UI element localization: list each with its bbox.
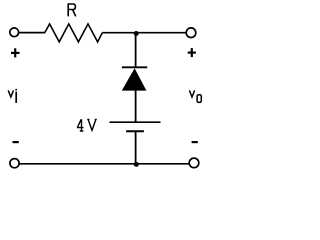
label 4 V bbox=[77, 119, 97, 131]
battery 4V negative plate bbox=[126, 130, 144, 132]
wire input lead bbox=[19, 32, 45, 34]
node junction bottom bbox=[134, 162, 139, 167]
minus sign right bbox=[192, 141, 198, 143]
terminal TR bbox=[186, 28, 196, 38]
wire diode top lead bbox=[135, 33, 137, 68]
diode D1 bbox=[122, 68, 147, 90]
label vo bbox=[189, 90, 201, 102]
resistor R bbox=[45, 24, 103, 42]
label R bbox=[68, 4, 76, 16]
terminal BL bbox=[10, 159, 19, 168]
wire bottom rail bbox=[20, 163, 189, 165]
label vi bbox=[8, 90, 16, 103]
wire top rail bbox=[102, 32, 186, 34]
diode D1 cathode bar bbox=[122, 66, 147, 68]
minus sign left bbox=[13, 141, 19, 143]
terminal BR bbox=[189, 158, 199, 168]
terminal TL bbox=[10, 28, 19, 37]
wire diode to battery bbox=[135, 90, 137, 122]
plus sign right bbox=[188, 48, 196, 57]
plus sign left bbox=[11, 48, 20, 57]
battery 4V positive plate bbox=[110, 121, 161, 123]
node junction top bbox=[134, 31, 139, 36]
wire battery to bottom rail bbox=[135, 132, 137, 165]
